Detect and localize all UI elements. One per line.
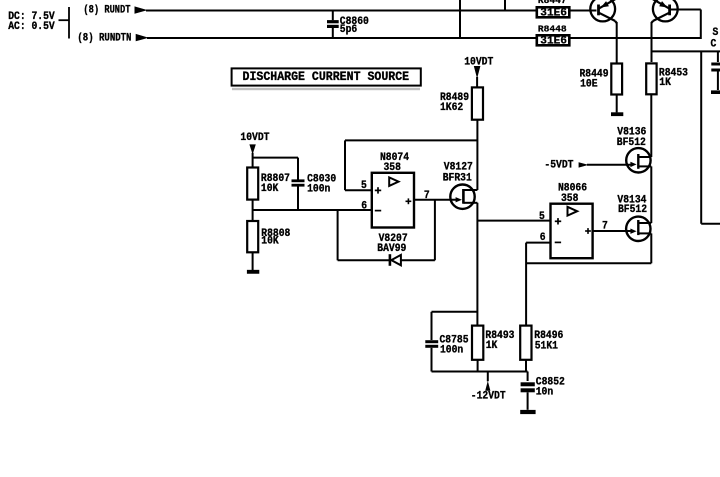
svg-text:10n: 10n xyxy=(536,386,553,399)
svg-text:10VDT: 10VDT xyxy=(240,131,269,144)
svg-text:-12VDT: -12VDT xyxy=(471,390,506,403)
svg-text:10K: 10K xyxy=(261,183,279,196)
svg-text:-5VDT: -5VDT xyxy=(544,159,573,172)
svg-text:5p6: 5p6 xyxy=(340,23,357,36)
svg-text:358: 358 xyxy=(561,193,578,206)
svg-text:100n: 100n xyxy=(440,344,463,357)
svg-text:31E6: 31E6 xyxy=(540,8,567,20)
svg-text:100n: 100n xyxy=(307,183,330,196)
svg-text:51K1: 51K1 xyxy=(535,340,558,353)
svg-text:1K: 1K xyxy=(486,340,498,353)
svg-text:10K: 10K xyxy=(261,235,279,248)
svg-text:BF512: BF512 xyxy=(618,203,647,216)
svg-text:R8447: R8447 xyxy=(538,0,567,6)
svg-text:R8448: R8448 xyxy=(538,24,567,35)
svg-text:(8) RUNDT: (8) RUNDT xyxy=(83,4,130,16)
svg-text:AC: 0.5V: AC: 0.5V xyxy=(8,21,55,34)
svg-text:C: C xyxy=(711,38,717,51)
svg-text:BAV99: BAV99 xyxy=(377,243,406,256)
svg-text:BF512: BF512 xyxy=(617,136,646,149)
svg-text:5: 5 xyxy=(539,210,545,223)
svg-text:5: 5 xyxy=(361,180,367,193)
svg-text:DISCHARGE CURRENT SOURCE: DISCHARGE CURRENT SOURCE xyxy=(243,69,410,84)
svg-text:358: 358 xyxy=(384,162,401,175)
svg-text:(8) RUNDTN: (8) RUNDTN xyxy=(77,32,131,44)
svg-text:10E: 10E xyxy=(580,78,597,91)
svg-text:31E6: 31E6 xyxy=(540,36,567,48)
svg-text:1K62: 1K62 xyxy=(440,101,463,114)
svg-text:BFR31: BFR31 xyxy=(443,172,472,185)
svg-text:1K: 1K xyxy=(659,77,671,90)
